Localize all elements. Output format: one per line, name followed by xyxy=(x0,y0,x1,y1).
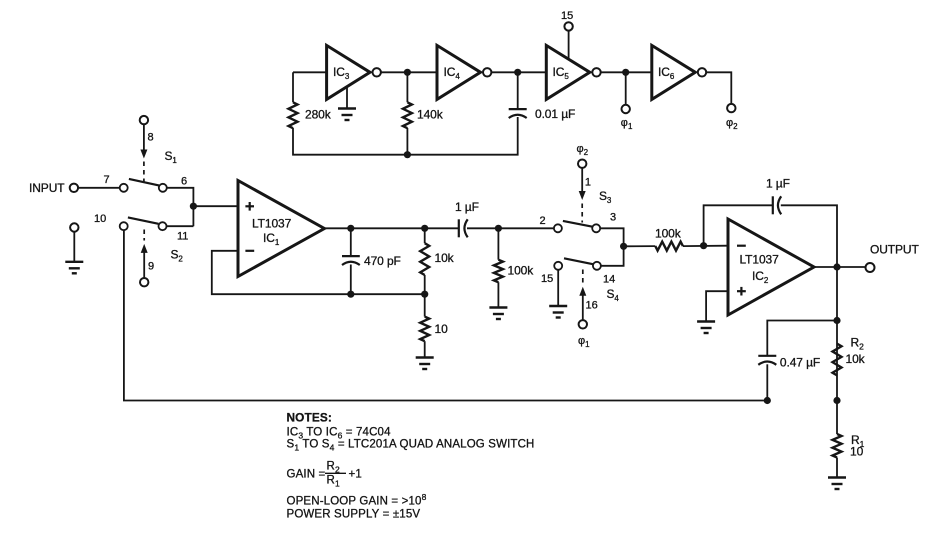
resistor 100k (series) xyxy=(655,227,683,251)
pin 15 terminal of IC5 xyxy=(561,10,573,60)
svg-text:1: 1 xyxy=(585,177,591,189)
svg-text:OPEN-LOOP GAIN = >108: OPEN-LOOP GAIN = >108 xyxy=(287,492,427,508)
notes text block xyxy=(287,411,535,521)
svg-text:10k: 10k xyxy=(846,352,866,366)
capacitor 0.01 uF xyxy=(509,72,576,121)
svg-text:0.01 µF: 0.01 µF xyxy=(535,107,575,121)
svg-text:INPUT: INPUT xyxy=(29,181,65,195)
resistor 100k (shunt) xyxy=(494,228,534,307)
op-amp IC2 LT1037 xyxy=(728,219,814,315)
wire junction to 100k series xyxy=(624,245,656,247)
svg-text:100k: 100k xyxy=(508,264,535,278)
node: junction on bottom oscillator rail xyxy=(404,151,411,158)
svg-text:NOTES:: NOTES: xyxy=(287,411,332,425)
wire IC5 out to IC6 in xyxy=(601,71,652,73)
wire: IC2 output xyxy=(814,266,865,268)
terminal phi2 (oscillator) xyxy=(706,72,738,131)
resistor R1 10 xyxy=(833,401,865,478)
ground (below R1) xyxy=(828,478,846,490)
wire input to S1 xyxy=(78,187,120,189)
svg-text:140k: 140k xyxy=(417,108,444,122)
node: 10k top junction xyxy=(421,225,428,232)
svg-text:R2: R2 xyxy=(327,461,340,475)
switch S1 xyxy=(104,149,188,192)
svg-text:280k: 280k xyxy=(305,108,332,122)
wire S3 out down to 100k series node xyxy=(600,228,623,246)
resistor 140k xyxy=(403,72,444,154)
wire IC3 out to IC4 in xyxy=(381,71,437,73)
node: 470pF top junction xyxy=(347,225,354,232)
svg-text:S4: S4 xyxy=(607,287,620,303)
node A: IC1 + input node xyxy=(190,203,197,210)
resistor 280k xyxy=(289,102,332,128)
switch S2 xyxy=(94,213,188,264)
svg-text:φ2: φ2 xyxy=(577,143,589,157)
actuator pin 1 of S3 (phi2) xyxy=(577,143,592,223)
svg-text:GAIN =: GAIN = xyxy=(287,469,326,481)
wire S2 out to summing node xyxy=(167,225,194,227)
resistor 10 xyxy=(420,294,448,357)
wire node to IC1 + input xyxy=(193,205,238,207)
ground (S4 left contact) xyxy=(549,270,567,318)
svg-text:1 µF: 1 µF xyxy=(455,200,479,214)
wire: IC2 feedback top rail xyxy=(704,205,837,267)
svg-text:S3: S3 xyxy=(599,189,612,205)
svg-text:OUTPUT: OUTPUT xyxy=(870,243,920,257)
inverter IC6 xyxy=(652,45,706,99)
OUTPUT terminal xyxy=(866,243,920,273)
svg-text:0.47 µF: 0.47 µF xyxy=(780,356,820,370)
svg-text:3: 3 xyxy=(610,212,616,224)
wire: oscillator feedback left vertical and bottom rail xyxy=(293,72,518,154)
wire: IC1 output row xyxy=(324,227,459,229)
svg-text:POWER SUPPLY = ±15V: POWER SUPPLY = ±15V xyxy=(287,509,421,521)
wire: 0.47uF branch xyxy=(767,321,837,401)
ground (below 10 ohm) xyxy=(416,358,434,370)
actuator pin 9 of S2 xyxy=(140,230,154,287)
wire: output down to divider xyxy=(836,267,838,401)
wire: IC1 inverting feedback xyxy=(212,251,425,294)
svg-text:15: 15 xyxy=(541,273,553,285)
svg-text:9: 9 xyxy=(148,261,154,273)
svg-text:R1: R1 xyxy=(327,475,340,489)
svg-text:8: 8 xyxy=(148,132,154,144)
wire: input to IC3 xyxy=(293,71,327,73)
node: junction IC3-IC4 xyxy=(404,69,411,76)
node: output junction xyxy=(833,263,840,270)
op-amp IC1 LT1037 xyxy=(238,181,324,277)
capacitor 0.47 uF xyxy=(758,356,820,370)
wire S4 out up to 100k series node xyxy=(601,246,624,265)
node: R2 top junction xyxy=(833,317,840,324)
ground (IC3) xyxy=(338,87,356,121)
actuator pin 8 of S1 xyxy=(140,116,154,183)
node: 470pF bottom junction xyxy=(347,291,354,298)
inverter IC4 xyxy=(437,45,491,99)
node: junction IC4-IC5 xyxy=(514,69,521,76)
INPUT terminal xyxy=(29,181,78,195)
svg-text:15: 15 xyxy=(561,10,573,22)
node: bottom rail left junction xyxy=(764,397,771,404)
wire: cap to S3 xyxy=(467,227,554,229)
node: 10k bottom junction xyxy=(421,291,428,298)
svg-text:φ1: φ1 xyxy=(578,335,590,349)
actuator pin 16 of S4 (phi1) xyxy=(578,270,598,350)
svg-text:R2: R2 xyxy=(851,336,865,352)
svg-text:16: 16 xyxy=(586,300,598,312)
svg-text:2: 2 xyxy=(540,215,546,227)
svg-text:1 µF: 1 µF xyxy=(766,177,790,191)
ground (below 100k) xyxy=(489,308,507,320)
node: series 100k input junction xyxy=(620,243,627,250)
wire S1 out to summing node xyxy=(167,188,194,226)
svg-text:10: 10 xyxy=(94,213,106,225)
svg-text:11: 11 xyxy=(177,231,188,243)
capacitor 1 uF (coupling) xyxy=(455,200,479,237)
svg-text:470 pF: 470 pF xyxy=(364,254,401,268)
resistor 10k xyxy=(420,228,454,294)
switch S3 xyxy=(540,189,617,232)
svg-text:S1 TO S4 = LTC201A QUAD ANALOG: S1 TO S4 = LTC201A QUAD ANALOG SWITCH xyxy=(287,439,535,453)
wire 100k to IC2 inverting input xyxy=(683,245,728,247)
svg-text:S1: S1 xyxy=(165,149,178,165)
svg-text:10k: 10k xyxy=(435,251,455,265)
svg-text:φ1: φ1 xyxy=(621,117,633,131)
wire IC2 + input to ground xyxy=(706,291,728,321)
terminal phi1 (oscillator) xyxy=(621,72,633,131)
svg-text:100k: 100k xyxy=(655,227,682,241)
capacitor 1 uF (feedback) xyxy=(766,177,790,215)
node: junction IC5-IC6 (phi1 tap) xyxy=(622,69,629,76)
svg-text:S2: S2 xyxy=(171,248,184,264)
svg-text:14: 14 xyxy=(603,274,615,286)
wire: S2 to bottom feedback rail xyxy=(124,230,767,400)
svg-text:6: 6 xyxy=(181,176,187,188)
ground (input reference) xyxy=(65,223,83,273)
node: 100k shunt junction xyxy=(495,225,502,232)
svg-text:LT1037: LT1037 xyxy=(252,217,292,231)
inverter IC3 xyxy=(327,45,381,99)
wire IC4 out to IC5 in xyxy=(491,71,546,73)
svg-text:+1: +1 xyxy=(349,469,362,481)
svg-text:10: 10 xyxy=(435,322,449,336)
node: IC2 inverting input junction xyxy=(700,242,707,249)
inverter IC5 xyxy=(546,45,600,99)
ground (IC2 + input) xyxy=(697,322,715,334)
svg-text:LT1037: LT1037 xyxy=(740,253,780,267)
svg-text:7: 7 xyxy=(104,174,110,186)
node: bottom rail right junction xyxy=(833,397,840,404)
resistor R2 10k xyxy=(833,336,866,376)
capacitor 470 pF xyxy=(342,228,401,294)
svg-text:φ2: φ2 xyxy=(726,117,738,131)
svg-text:10: 10 xyxy=(850,445,864,459)
switch S4 xyxy=(541,258,619,303)
